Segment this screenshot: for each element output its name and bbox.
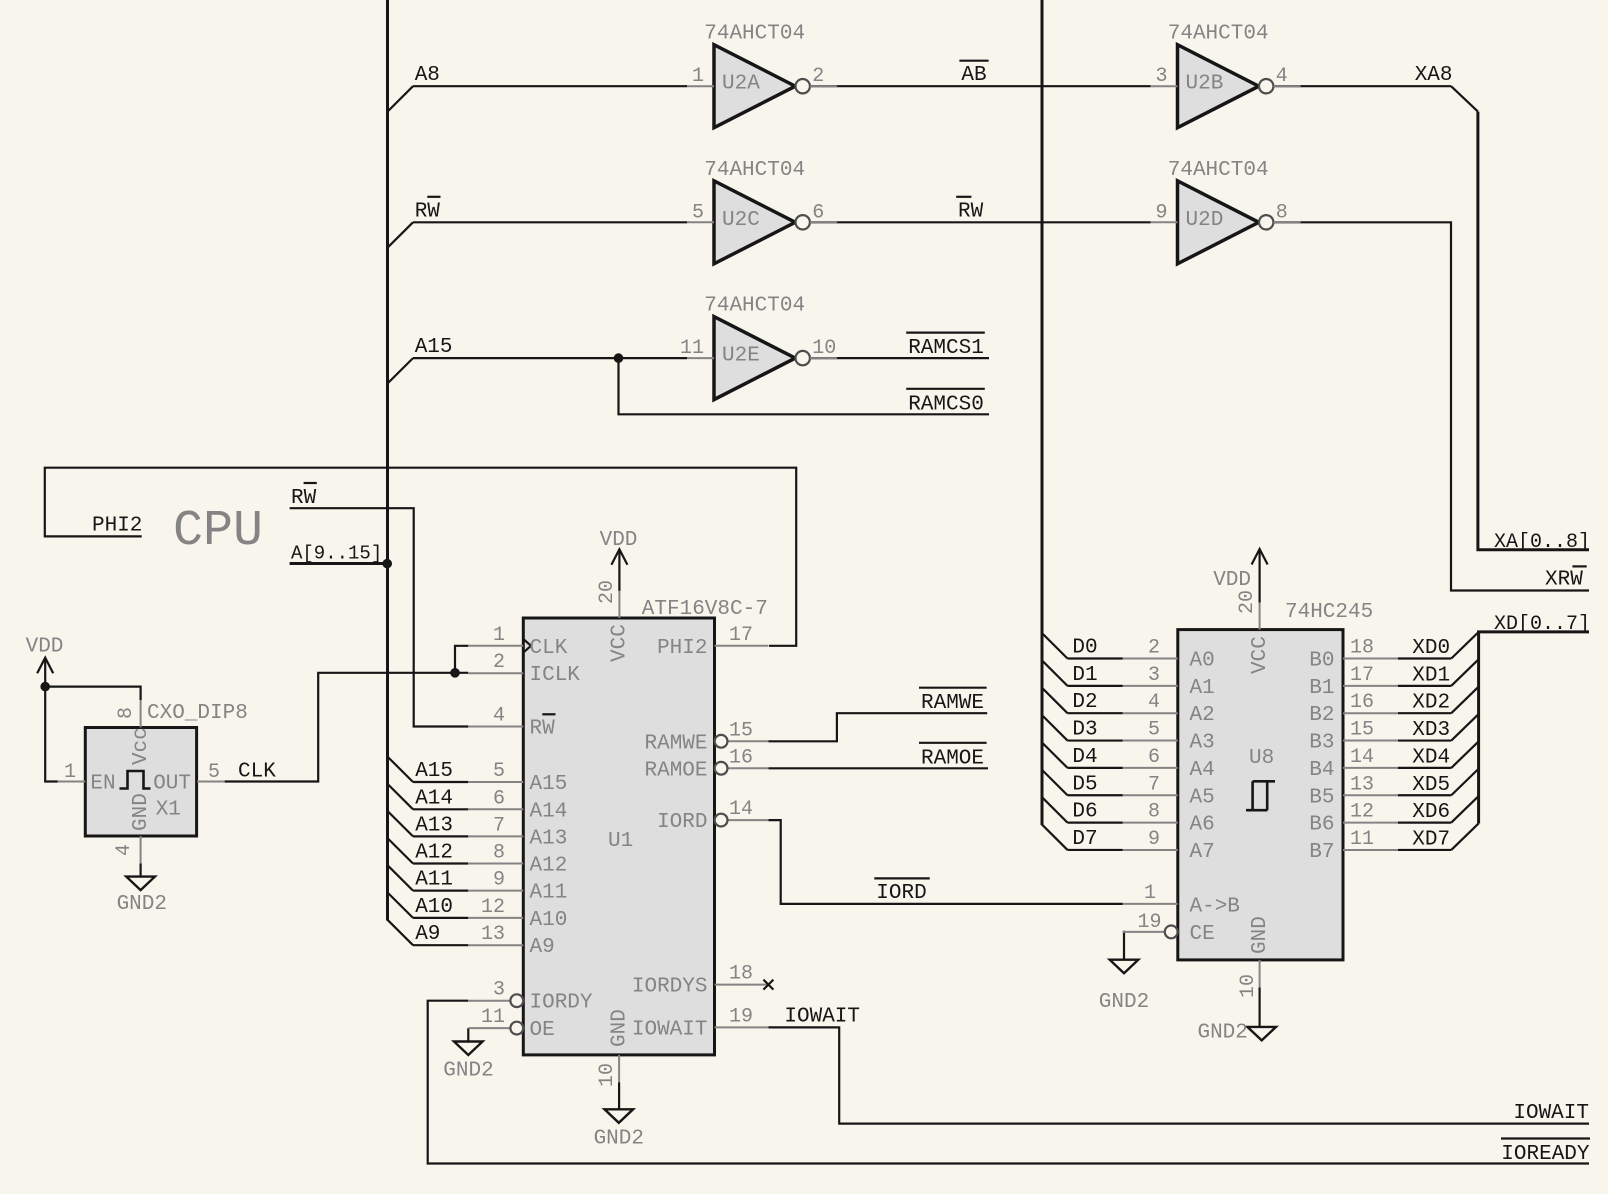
svg-text:IORDYS: IORDYS <box>632 976 708 999</box>
bus entry D6 <box>1042 797 1068 822</box>
svg-text:X1: X1 <box>156 799 181 822</box>
svg-text:3: 3 <box>1155 65 1167 88</box>
svg-text:U8: U8 <box>1249 747 1274 770</box>
svg-text:VCC: VCC <box>1249 636 1272 674</box>
svg-text:A15: A15 <box>415 336 453 359</box>
wire VDD to X1 <box>45 687 140 701</box>
pin 7 (U8 A5) <box>1123 773 1215 809</box>
svg-text:1: 1 <box>64 761 76 784</box>
svg-text:5: 5 <box>208 761 220 784</box>
svg-text:12: 12 <box>481 896 505 919</box>
junction VDD X1 <box>40 682 50 692</box>
pin 5 (U1 A15) <box>468 760 567 796</box>
label RW (CPU) <box>291 483 317 510</box>
svg-text:74AHCT04: 74AHCT04 <box>704 159 805 182</box>
svg-text:CPU: CPU <box>173 503 263 560</box>
pin 1 (U1 CLK) <box>468 624 567 660</box>
bus A[8..15] vertical <box>386 0 389 921</box>
svg-text:10: 10 <box>812 337 836 360</box>
svg-text:7: 7 <box>493 814 505 837</box>
power VDD (U8) <box>1258 549 1260 603</box>
svg-text:A10: A10 <box>415 896 453 919</box>
wire RAMOE <box>768 767 988 769</box>
bus XD[0..7] <box>1479 632 1589 824</box>
svg-text:4: 4 <box>1276 65 1288 88</box>
svg-text:74AHCT04: 74AHCT04 <box>1168 23 1269 46</box>
svg-text:D4: D4 <box>1072 746 1097 769</box>
wire U1 GND stub2 <box>618 1082 620 1109</box>
svg-text:B1: B1 <box>1309 677 1334 700</box>
svg-text:A3: A3 <box>1190 732 1215 755</box>
pin 6 (U8 A4) <box>1123 746 1215 782</box>
svg-text:PHI2: PHI2 <box>92 514 142 537</box>
bus entry D2 <box>1042 688 1068 713</box>
pin 1 (U8 A->B) <box>1123 882 1240 919</box>
svg-text:B4: B4 <box>1309 759 1334 782</box>
bus entry D4 <box>1042 743 1068 768</box>
svg-text:A13: A13 <box>530 827 568 850</box>
pin 3 (U1 IORDY) <box>468 979 593 1015</box>
svg-text:PHI2: PHI2 <box>657 637 707 660</box>
svg-text:GND2: GND2 <box>1099 991 1149 1014</box>
svg-text:6: 6 <box>493 787 505 810</box>
svg-text:A15: A15 <box>530 773 568 796</box>
svg-text:2: 2 <box>493 651 505 674</box>
pin 8 (U8 A6) <box>1123 801 1215 837</box>
pin 16 (U8 B2) <box>1309 691 1398 727</box>
pin 15 (U8 B3) <box>1309 719 1398 755</box>
svg-text:12: 12 <box>1350 801 1374 824</box>
svg-text:VDD: VDD <box>600 529 638 552</box>
bus entry XD7 <box>1451 823 1478 850</box>
wire D5 <box>1068 794 1123 796</box>
svg-text:RW: RW <box>530 718 556 741</box>
svg-text:RAMOE: RAMOE <box>644 759 707 782</box>
bus entry XD4 <box>1451 741 1478 768</box>
bus XA[0..8] <box>1478 112 1589 550</box>
pin 14 (U8 B4) <box>1309 746 1398 782</box>
svg-text:IORDY: IORDY <box>530 992 593 1015</box>
wire U8 GND stub2 <box>1258 987 1260 1027</box>
svg-text:A12: A12 <box>415 842 453 865</box>
svg-text:A1: A1 <box>1190 677 1215 700</box>
wire XA8 <box>1273 85 1451 87</box>
svg-text:OE: OE <box>530 1019 555 1042</box>
svg-text:17: 17 <box>729 624 753 647</box>
pin 4 (U8 A2) <box>1123 691 1215 727</box>
svg-text:8: 8 <box>493 842 505 865</box>
svg-text:14: 14 <box>729 798 753 821</box>
bus entry D7 <box>1042 825 1068 850</box>
bus entry RW <box>388 222 414 247</box>
wire RW mid <box>810 221 1151 223</box>
svg-text:7: 7 <box>1148 773 1160 796</box>
svg-text:19: 19 <box>729 1005 753 1028</box>
wire RAMCS1 <box>810 357 989 359</box>
svg-text:D3: D3 <box>1072 719 1097 742</box>
svg-text:A->B: A->B <box>1190 896 1240 919</box>
pin 19 (U8 CE) <box>1123 911 1215 946</box>
svg-text:GND: GND <box>609 1009 632 1047</box>
svg-text:9: 9 <box>493 869 505 892</box>
bus entry XD0 <box>1451 632 1478 659</box>
wire CLK net <box>225 673 469 782</box>
wire D0 <box>1068 657 1123 659</box>
svg-text:A12: A12 <box>530 855 568 878</box>
svg-text:GND: GND <box>130 793 153 831</box>
svg-text:RW: RW <box>415 200 441 223</box>
svg-text:A4: A4 <box>1190 759 1215 782</box>
svg-text:GND2: GND2 <box>1197 1021 1247 1044</box>
svg-text:11: 11 <box>481 1006 505 1029</box>
svg-text:IOREADY: IOREADY <box>1501 1143 1590 1166</box>
pin 11 (U8 B7) <box>1309 828 1398 864</box>
svg-text:74AHCT04: 74AHCT04 <box>1168 159 1269 182</box>
svg-text:A9: A9 <box>530 936 555 959</box>
svg-text:B5: B5 <box>1309 786 1334 809</box>
pin 13 (U8 B5) <box>1309 773 1398 809</box>
svg-text:A11: A11 <box>530 882 568 905</box>
wire XD2 <box>1398 712 1451 714</box>
svg-text:D0: D0 <box>1072 637 1097 660</box>
pin 20 (U8 VCC) <box>1236 590 1272 674</box>
power VDD (U1) <box>618 549 620 591</box>
wire A8 <box>413 85 687 87</box>
oscillator X1 CXO_DIP8 body <box>85 728 196 837</box>
svg-text:2: 2 <box>1148 637 1160 660</box>
wire A12 <box>413 862 468 864</box>
svg-text:CLK: CLK <box>238 761 276 784</box>
svg-text:A15: A15 <box>415 760 453 783</box>
wire A13 <box>413 835 468 837</box>
pin 10 (U1 GND) <box>596 1009 632 1087</box>
bus entry A14 <box>388 784 414 809</box>
svg-text:20: 20 <box>596 580 619 604</box>
wire XD7 <box>1398 849 1451 851</box>
svg-text:AB: AB <box>961 64 986 87</box>
label XRW <box>1545 566 1587 591</box>
svg-text:CE: CE <box>1190 923 1215 946</box>
pin 18 (U8 B0) <box>1309 637 1398 673</box>
svg-text:74AHCT04: 74AHCT04 <box>704 23 805 46</box>
pin 14 (U1 IORD) <box>657 798 768 834</box>
svg-text:ICLK: ICLK <box>530 664 581 687</box>
svg-text:5: 5 <box>1148 719 1160 742</box>
junction ICLK <box>450 668 460 678</box>
pin 5 (U8 A3) <box>1123 719 1215 755</box>
svg-text:11: 11 <box>680 337 704 360</box>
inverter U2B 74AHCT04 <box>1151 23 1301 128</box>
svg-text:GND2: GND2 <box>443 1059 493 1082</box>
svg-text:XA8: XA8 <box>1415 64 1453 87</box>
svg-text:9: 9 <box>1155 201 1167 224</box>
svg-text:GND2: GND2 <box>594 1128 644 1151</box>
pin 12 (U8 B6) <box>1309 801 1398 837</box>
svg-text:XD4: XD4 <box>1412 746 1450 769</box>
svg-text:1: 1 <box>692 65 704 88</box>
wire D7 <box>1068 849 1123 851</box>
bus entry XD2 <box>1451 687 1478 714</box>
svg-text:A13: A13 <box>415 814 453 837</box>
bus entry XD3 <box>1451 714 1478 741</box>
svg-text:IORD: IORD <box>876 882 926 905</box>
wire X1 GND <box>140 864 142 877</box>
svg-text:RAMWE: RAMWE <box>644 732 707 755</box>
svg-text:6: 6 <box>1148 746 1160 769</box>
wire XD6 <box>1398 821 1451 823</box>
svg-text:XD3: XD3 <box>1412 719 1450 742</box>
pin 9 (U1 A11) <box>468 869 567 905</box>
svg-text:A8: A8 <box>415 64 440 87</box>
pin 10 (U8 GND) <box>1237 916 1272 998</box>
power GND2 (CE) <box>1110 960 1139 974</box>
wire A15 <box>413 781 468 783</box>
label AB <box>959 61 988 87</box>
svg-text:XRW: XRW <box>1545 569 1583 592</box>
wire RAMWE <box>768 713 987 741</box>
label PHI2 <box>92 514 142 537</box>
svg-text:15: 15 <box>729 719 753 742</box>
bus entry XA8 <box>1451 86 1478 111</box>
svg-text:OUT: OUT <box>153 773 191 796</box>
svg-text:5: 5 <box>493 760 505 783</box>
pin 5 (X1 OUT) <box>153 761 224 796</box>
pin 7 (U1 A13) <box>468 814 567 850</box>
pin 12 (U1 A10) <box>468 896 567 932</box>
svg-text:10: 10 <box>596 1063 619 1087</box>
label RAMCS0 <box>906 389 985 417</box>
svg-text:14: 14 <box>1350 746 1374 769</box>
svg-text:D7: D7 <box>1072 828 1097 851</box>
label RW (row) <box>415 197 441 224</box>
bus entry A15 <box>388 757 414 782</box>
pin 4 (X1 GND) <box>113 793 153 863</box>
inverter U2C 74AHCT04 <box>687 159 837 264</box>
wire IORD <box>768 820 1122 904</box>
pin 2 (U1 ICLK) <box>468 651 580 687</box>
svg-text:13: 13 <box>481 923 505 946</box>
bus entry A11 <box>388 865 414 890</box>
svg-text:3: 3 <box>493 979 505 1002</box>
svg-text:1: 1 <box>1144 882 1156 905</box>
pin 8 (X1 Vcc) <box>115 700 153 765</box>
inverter U2E 74AHCT04 <box>687 295 837 400</box>
power GND2 (U1 pin10) <box>605 1109 634 1123</box>
svg-text:XA[0..8]: XA[0..8] <box>1494 531 1590 554</box>
svg-text:D1: D1 <box>1072 664 1097 687</box>
svg-text:6: 6 <box>812 201 824 224</box>
pin 6 (U1 A14) <box>468 787 567 823</box>
bus entry A8 <box>388 86 414 111</box>
svg-text:A6: A6 <box>1190 814 1215 837</box>
svg-text:D2: D2 <box>1072 691 1097 714</box>
pin 9 (U8 A7) <box>1123 828 1215 864</box>
svg-text:IOWAIT: IOWAIT <box>1513 1102 1589 1125</box>
svg-text:18: 18 <box>1350 637 1374 660</box>
svg-text:CLK: CLK <box>530 637 568 660</box>
bus entry D5 <box>1042 770 1068 795</box>
svg-text:10: 10 <box>1237 974 1260 998</box>
svg-text:A9: A9 <box>415 923 440 946</box>
svg-text:4: 4 <box>1148 691 1160 714</box>
svg-text:11: 11 <box>1350 828 1374 851</box>
wire IORDY to IOREADY <box>428 1001 1589 1164</box>
junction A15/RAMCS0 <box>614 353 624 363</box>
pin 8 (U1 A12) <box>468 842 567 878</box>
wire OE to GND2 <box>467 1028 469 1041</box>
svg-text:A14: A14 <box>530 800 568 823</box>
svg-text:20: 20 <box>1236 590 1259 614</box>
power VDD (X1) <box>44 658 46 687</box>
svg-text:B7: B7 <box>1309 841 1334 864</box>
pin 17 (U1 PHI2) <box>657 624 768 660</box>
bus entry A9 <box>388 920 414 945</box>
pin 19 (U1 IOWAIT) <box>632 1005 769 1041</box>
svg-text:17: 17 <box>1350 664 1374 687</box>
wire IOWAIT <box>768 1027 1589 1123</box>
svg-text:A[9..15]: A[9..15] <box>291 543 382 565</box>
svg-text:74HC245: 74HC245 <box>1285 601 1373 624</box>
svg-text:A0: A0 <box>1190 650 1215 673</box>
wire XRW <box>1273 222 1589 590</box>
svg-text:4: 4 <box>493 705 505 728</box>
wire A10 <box>413 917 468 919</box>
svg-text:B2: B2 <box>1309 704 1334 727</box>
svg-text:13: 13 <box>1350 773 1374 796</box>
pin 15 (U1 RAMWE) <box>644 719 768 755</box>
svg-text:IOWAIT: IOWAIT <box>632 1018 708 1041</box>
svg-text:B0: B0 <box>1309 650 1334 673</box>
svg-text:8: 8 <box>1276 201 1288 224</box>
bus D[0..7] vertical <box>1041 0 1044 825</box>
svg-text:RAMCS0: RAMCS0 <box>908 393 984 416</box>
svg-text:15: 15 <box>1350 719 1374 742</box>
svg-text:B6: B6 <box>1309 814 1334 837</box>
IC U8 74HC245 body <box>1178 630 1343 960</box>
svg-text:A5: A5 <box>1190 786 1215 809</box>
svg-text:4: 4 <box>113 844 136 856</box>
bus entry A15 <box>388 358 414 383</box>
wire D3 <box>1068 739 1123 741</box>
wire XD5 <box>1398 794 1451 796</box>
svg-text:A14: A14 <box>415 787 453 810</box>
svg-text:74AHCT04: 74AHCT04 <box>704 295 805 318</box>
wire A14 <box>413 808 468 810</box>
svg-text:ATF16V8C-7: ATF16V8C-7 <box>642 598 768 621</box>
inverter U2A 74AHCT04 <box>687 23 837 128</box>
svg-text:8: 8 <box>115 707 138 719</box>
svg-text:XD[0..7]: XD[0..7] <box>1494 613 1590 636</box>
svg-text:U2D: U2D <box>1186 209 1224 232</box>
svg-text:U2C: U2C <box>722 209 760 232</box>
svg-text:XD1: XD1 <box>1412 664 1450 687</box>
svg-text:D6: D6 <box>1072 801 1097 824</box>
svg-text:A2: A2 <box>1190 704 1215 727</box>
wire D2 <box>1068 712 1123 714</box>
pin 13 (U1 A9) <box>468 923 554 959</box>
wire XD3 <box>1398 739 1451 741</box>
svg-text:XD5: XD5 <box>1412 774 1450 797</box>
svg-text:VCC: VCC <box>609 624 632 662</box>
svg-text:A11: A11 <box>415 869 453 892</box>
svg-text:A7: A7 <box>1190 841 1215 864</box>
svg-text:IOWAIT: IOWAIT <box>784 1005 860 1028</box>
svg-text:19: 19 <box>1137 911 1161 934</box>
wire CLK branch to pin 1 <box>455 646 468 673</box>
bus entry D1 <box>1042 660 1068 685</box>
pin 4 (U1 RW) <box>468 705 555 741</box>
wire D6 <box>1068 821 1123 823</box>
svg-text:VDD: VDD <box>1213 569 1251 592</box>
bus A[9..15] label stub <box>290 562 388 565</box>
wire D4 <box>1068 767 1123 769</box>
junction A[9..15] / bus <box>382 559 392 569</box>
svg-text:RW: RW <box>958 200 984 223</box>
svg-text:9: 9 <box>1148 828 1160 851</box>
svg-text:D5: D5 <box>1072 773 1097 796</box>
power GND2 (X1) <box>126 877 155 891</box>
bus entry XD6 <box>1451 796 1478 823</box>
wire XD0 <box>1398 657 1451 659</box>
svg-text:RAMWE: RAMWE <box>921 692 984 715</box>
svg-text:2: 2 <box>812 65 824 88</box>
svg-text:Vcc: Vcc <box>130 727 153 765</box>
wire XD1 <box>1398 685 1451 687</box>
bus entry D0 <box>1042 633 1068 658</box>
bus entry A13 <box>388 811 414 836</box>
label RW (mid) <box>956 197 983 224</box>
wire A11 <box>413 889 468 891</box>
wire CPU PHI2 loop <box>45 468 796 646</box>
label IOREADY <box>1501 1139 1590 1167</box>
svg-text:GND2: GND2 <box>117 893 167 916</box>
wire XD4 <box>1398 767 1451 769</box>
svg-text:U1: U1 <box>608 830 633 853</box>
svg-text:XD0: XD0 <box>1412 637 1450 660</box>
wire AB <box>810 85 1151 87</box>
bus entry A10 <box>388 893 414 918</box>
IC U1 ATF16V8C-7 body <box>523 618 714 1055</box>
wire CPU RW <box>290 508 469 726</box>
inverter U2D 74AHCT04 <box>1151 159 1301 264</box>
svg-text:A10: A10 <box>530 909 568 932</box>
label RAMOE <box>919 743 987 771</box>
svg-text:CXO_DIP8: CXO_DIP8 <box>147 702 248 725</box>
wire CE to GND2 <box>1123 932 1124 960</box>
svg-text:EN: EN <box>90 773 115 796</box>
svg-text:U2A: U2A <box>722 73 760 96</box>
pin 20 (U1 VCC) <box>596 580 632 662</box>
bus entry D3 <box>1042 715 1068 740</box>
svg-text:5: 5 <box>692 201 704 224</box>
label IORD <box>874 878 929 905</box>
pin 2 (U8 A0) <box>1123 637 1215 673</box>
svg-text:18: 18 <box>729 963 753 986</box>
wire RAMCS0 <box>619 358 990 414</box>
pin 18 (U1 IORDYS) <box>632 963 769 999</box>
svg-text:8: 8 <box>1148 801 1160 824</box>
svg-text:RAMOE: RAMOE <box>921 747 984 770</box>
svg-text:IORD: IORD <box>657 811 707 834</box>
wire RW in <box>413 221 687 223</box>
svg-text:XD6: XD6 <box>1412 801 1450 824</box>
svg-text:RAMCS1: RAMCS1 <box>908 337 984 360</box>
bus entry XD1 <box>1451 659 1478 686</box>
pin 16 (U1 RAMOE) <box>644 746 768 782</box>
pin 3 (U8 A1) <box>1123 664 1215 700</box>
svg-text:3: 3 <box>1148 664 1160 687</box>
label RAMWE <box>919 688 987 716</box>
